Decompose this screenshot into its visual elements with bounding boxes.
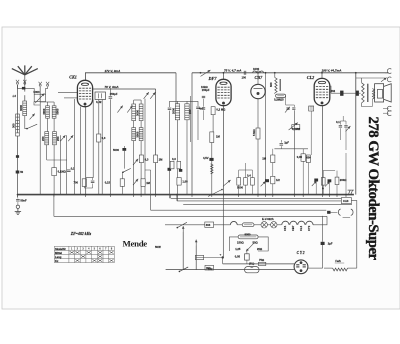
band switch S2 [27,124,37,128]
fuse box on plus line [195,255,203,259]
fuse box 303 lower [205,265,214,270]
coil L2 300 [16,114,20,136]
resistor R11 [271,176,275,184]
terminal E1 [39,82,42,86]
svg-text:CY2: CY2 [307,225,311,231]
svg-text:4,5V: 4,5V [203,156,209,160]
divider resistor 800 oval [238,235,258,239]
trimmer T5 [127,106,132,113]
svg-text:250pF: 250pF [110,92,118,96]
trimmer T2 [60,135,65,141]
switch arrow S6 [312,181,317,186]
wire hook1 stub [385,72,389,74]
wire x24.8 down to coil [24,95,26,101]
terminal hook top right 1 [387,69,391,74]
switch arrow S7 [325,181,330,186]
switch arrow S5 [223,180,231,186]
transformer secondary [372,89,374,100]
wire coil L5-L7 link [53,118,55,131]
wire R6 down [211,143,213,195]
ground symbol [15,209,21,215]
resistor R2 0,1M [52,168,57,176]
junction dot g17 [322,194,324,196]
junction stub g8 [191,195,193,197]
capacitor C21 blob [168,168,172,171]
wire R11 down [272,184,274,195]
terminal hook top right 2 [387,77,391,82]
coil L10 [132,128,136,141]
speaker frame [375,84,384,102]
svg-text:3000: 3000 [135,110,139,116]
junction stub g15 [293,195,295,197]
wire HT bus 172V [85,73,176,81]
wire coil to R8 [274,93,276,94]
wire x93.2 segment [86,100,94,178]
svg-text:278 GW Oktoden-Super: 278 GW Oktoden-Super [365,117,381,261]
svg-text:CB7: CB7 [291,225,295,231]
svg-text:CB7: CB7 [255,75,264,80]
resistor R22 1M [154,155,158,163]
capacitor 50nF on x17.5 [16,171,20,174]
svg-text:50: 50 [20,170,23,174]
junction dot g8 [191,194,193,196]
junction dot g20 [345,194,347,196]
wire box pins down [98,100,100,135]
svg-text:600: 600 [269,82,273,87]
wire x176.9 drop [176,195,178,201]
wire CA3 to right bus [351,201,356,269]
wire y93 caps link [331,92,340,94]
trimmer capacitor 5000 [34,94,45,101]
wire R17 R18 downs [322,185,324,195]
wire R5 R6 link [212,115,214,132]
wire y160 cross [47,159,67,161]
svg-text:3000: 3000 [42,108,46,114]
svg-text:700: 700 [74,180,79,184]
capacitor C13 blob [265,179,269,182]
wire C12 stub [280,146,282,149]
table X marks [70,251,114,262]
junction dot g5 [140,194,142,196]
mains arrow 2 [195,240,197,246]
junction stub g19 [336,195,338,197]
wire CY2 right [308,267,323,269]
coil L7 250 [53,132,57,145]
junction stub g11 [238,195,240,197]
wire R7 down [257,139,259,195]
svg-text:50nF: 50nF [20,198,27,202]
wire CB7 down [257,99,259,128]
wire IF2 down [169,111,171,199]
switch S10 [123,168,131,172]
svg-text:10kΩ: 10kΩ [201,85,208,89]
wire tone cluster [340,121,346,125]
junction stub g18 [328,195,330,197]
pickup jack left [338,209,340,215]
trimmer T3 [68,135,73,141]
wire row feeds [238,170,240,178]
svg-text:1/2: 1/2 [276,178,280,182]
junction dot g15 [294,194,296,196]
coil L11 [139,128,143,141]
alignment table [54,246,114,262]
junction stub g17 [322,195,324,197]
wire link y105 left [34,102,40,105]
junction stub g0 [17,195,19,197]
coil L1 3000 [23,101,27,116]
wire pot net [285,96,287,105]
wire transformer top [361,78,363,83]
return wire y215.9 [54,215,327,217]
svg-text:CL2: CL2 [307,75,314,80]
double diode CB7 [251,84,265,98]
junction dot g18 [329,194,331,196]
mains switch S9 [179,267,188,271]
mains lead 1 [182,232,184,270]
bracket y170.6 [323,170,336,172]
wire C9 C10 drop [203,99,205,107]
svg-text:0,3: 0,3 [145,157,149,161]
junction dot g1 [53,194,55,196]
wire HT bus right section [192,72,389,74]
coil L13 100 [185,104,189,120]
mains switch S8 [177,222,187,227]
wire screen bus 70V [92,88,155,90]
heater loop CB7 [290,221,297,225]
junction stub g2 [85,195,87,197]
table header digits [71,247,113,251]
junction stub g13 [265,195,267,197]
wire R12 [302,149,304,154]
svg-text:172 V, 3mA: 172 V, 3mA [105,69,121,73]
junction dot g4 [133,194,135,196]
resistor R9 0,1M [292,125,300,129]
resistor E-V-022A oval [242,223,254,227]
junction stub g6 [155,195,157,197]
resistor R23 1M lower [141,179,145,187]
resistor R6 1M vertical [210,132,214,143]
dial lamp 2 [271,222,277,228]
junction dot g13 [265,194,267,196]
junction stub g16 [302,195,304,197]
coil L8 300 [132,104,136,121]
trimmer T6 [144,92,149,99]
junction dot g7 [176,194,178,196]
crossover loop [230,221,237,224]
wire x54.1 lower [53,145,55,160]
svg-text:100: 100 [242,76,247,80]
svg-text:0,1: 0,1 [336,120,340,124]
junction dot g10 [223,194,225,196]
svg-text:1μF: 1μF [284,141,289,145]
capacitor C22 blob [179,169,182,172]
coil L5 5000 [52,106,56,118]
wire R20 down [121,186,123,194]
wire L6 to ground bus [46,145,48,160]
capacitor C5 [91,180,95,182]
svg-text:75 V, 4,7 mA: 75 V, 4,7 mA [224,69,241,73]
junction dot g3 [110,194,112,196]
box oscillator unit 0,32 [95,92,106,100]
heater loop CY2 [306,221,313,225]
resistor R3 700 [82,179,86,187]
wire ant terminals link [18,85,35,94]
svg-text:5 MΩ: 5 MΩ [252,129,256,136]
junction dot g11 [238,194,240,196]
wire coil L3-L6 link [47,118,49,131]
wire right bus x355.8 [355,73,357,195]
wire C5 link [84,184,92,188]
wire plus node down [222,258,224,264]
svg-text:Lang: Lang [55,255,62,259]
resistor R8 oval [276,94,286,97]
wire 250pF drop [109,89,111,96]
wire x265 vertical [265,73,267,195]
svg-text:5000: 5000 [237,186,243,190]
capacitor box below CL2 [309,106,314,111]
junction stub g4 [133,195,135,197]
wire y148.8 horizontal [274,148,308,150]
heater dropper resistor Fe/h [333,268,348,271]
wire CL2 anode up [321,73,323,79]
resistor R25 [177,161,181,169]
wire coils down to bus [133,141,135,195]
capacitor 250pF [109,96,113,98]
svg-text:0,05: 0,05 [235,254,241,258]
junction dot g14 [272,194,274,196]
wire R2 stubs [53,160,55,168]
svg-text:5000: 5000 [113,148,119,152]
octode CK1 [77,80,92,106]
switch S1 on HT bus [201,70,211,76]
wire R10 [272,149,274,155]
resistor R12 600 [301,154,305,162]
resistor R18 200 [335,177,339,185]
junction dot g9 [211,194,213,196]
svg-text:CK1: CK1 [283,225,287,231]
mains arrow 1 [182,226,184,232]
junction blob on x17.5 [16,155,19,158]
resistor R7 5M vertical [256,128,260,139]
svg-text:600: 600 [306,156,311,160]
svg-text:4nF: 4nF [199,107,204,111]
row resistor R13 [237,178,241,186]
svg-text:198 V, 44,7mA: 198 V, 44,7mA [322,69,342,73]
svg-text:462: 462 [331,89,336,93]
dial lamp 1 [261,222,267,228]
svg-text:100: 100 [188,109,192,114]
heater wire b [237,224,242,226]
mains lead 2 [195,246,197,270]
wire DF7 anode up [223,73,225,80]
switch S3 near bus [208,190,222,197]
svg-text:1000: 1000 [253,67,260,71]
terminal A1 [16,80,19,84]
resistor R5 0,2M [211,107,215,115]
wire antenna down [24,75,26,92]
chassis hatch right end [348,190,354,194]
junction stub g9 [211,195,213,197]
svg-text:250: 250 [41,136,45,141]
wire x311 down [310,111,312,155]
junction dot g19 [336,194,338,196]
capacitor C16 blob [328,179,332,182]
wire x17.5 vertical [17,85,19,133]
svg-text:0,2MΩ5: 0,2MΩ5 [274,98,284,102]
CA3 box [341,198,351,204]
svg-text:DF7: DF7 [208,76,218,81]
wire x102 vertical [101,100,103,195]
svg-text:50W: 50W [155,245,161,249]
wire CL2 cathode down [322,106,324,195]
rectifier CY2 [294,260,308,274]
output pentode CL2 [314,78,330,105]
wire CL2 anode to caps [330,86,331,93]
svg-text:5000: 5000 [55,108,59,114]
svg-text:1,25: 1,25 [235,247,241,251]
plus node dot [222,256,224,258]
wire x150.6 drop [150,195,152,211]
junction stub g1 [53,195,55,197]
heater wire c [254,224,261,226]
pickup jack right [351,209,353,215]
capacitor C7 [168,107,172,109]
wire coil top [274,73,276,78]
svg-text:2μF: 2μF [328,242,333,246]
trimmer T7 [150,92,155,99]
wire x80.7 vertical [80,107,82,195]
capacitor C11 blob [209,158,213,161]
wire IF-can right wall x155.6 [155,89,157,195]
coil L3 3000 [46,106,50,118]
svg-text:0,15: 0,15 [105,181,111,185]
wire bus drop x176 [175,73,177,104]
wire 2uF vertical [322,216,324,242]
coupling capacitor Ca [340,91,343,96]
barretter box 303 [205,222,214,227]
tone caps cluster [339,125,342,127]
svg-text:+: + [220,253,222,257]
return wire y204.6 [183,204,352,206]
svg-text:0,3: 0,3 [172,157,176,161]
earth terminal circle [16,205,19,208]
terminal hook bottom right 1 [387,106,391,111]
coil L9 3000 [139,104,143,121]
wire jack feed [331,211,338,213]
svg-text:0,05: 0,05 [297,155,303,159]
wire R17 C16 feeds [322,171,324,178]
wire row downs [238,185,240,195]
resistor R10 1M [271,155,275,163]
core bar [279,79,281,91]
capacitor C10 [202,107,205,109]
svg-text:CA3: CA3 [343,199,349,203]
svg-text:1,00: 1,00 [182,180,188,184]
switch arrow S4 [261,181,266,186]
svg-text:8050: 8050 [245,232,251,236]
junction dot g6 [155,194,157,196]
HT lower bus y263.9 [223,263,295,265]
pentode DF7 [216,79,231,105]
wire grid feed y92.6 [58,92,78,94]
resistor R26 [177,178,181,186]
wire x53.9 drop [53,195,55,217]
output transformer primary [362,83,365,103]
divider wiper [246,243,254,252]
svg-text:ZF=482 kHz: ZF=482 kHz [70,232,92,236]
junction stub g14 [272,195,274,197]
speaker magnet [377,90,382,99]
return wire y198.3 [171,197,342,199]
svg-text:303: 303 [206,266,211,270]
wire R16 down [307,163,309,195]
wire x345 down [345,153,347,195]
wire x145 vertical [144,99,146,195]
wire DF7 cathode down [223,106,225,195]
wire secondary leads [371,99,373,106]
coupling capacitor Cb [356,91,359,96]
svg-text:3000: 3000 [19,105,23,111]
wire CK1 cathode down [85,107,87,195]
heater wire a [214,224,231,226]
row resistor R14 [244,178,248,186]
resistor R16 [306,155,310,163]
junction stub g12 [257,195,259,197]
wire x66.7 vertical [66,135,68,194]
svg-text:Mittel: Mittel [55,251,62,255]
junction stub g20 [345,195,347,197]
return wire y200.9 [177,200,342,202]
wire x60.3 vertical [59,135,61,194]
coil L12 2000 [175,104,179,120]
svg-text:L4: L4 [13,94,17,98]
wire earth link [17,195,19,199]
wire x170.7 drop [170,195,172,199]
junction stub g3 [109,195,111,197]
trimmer T9 [133,159,138,165]
junction dot g0 [17,194,19,196]
junction stub g5 [140,195,142,197]
svg-text:Skala/Nr: Skala/Nr [55,247,66,251]
wire CB7 top [257,73,259,85]
capacitor on antenna lead [22,87,25,90]
wire vertical x192 to ground bus [191,73,193,195]
junction dot g16 [302,194,304,196]
IF2 can wall [189,96,191,142]
wave trap earpiece [211,164,213,174]
IF coil 1000 on bus [253,71,257,73]
capacitor C12 1uF [280,143,284,145]
svg-text:0,2 MΩ: 0,2 MΩ [216,108,226,112]
junction dot g12 [257,194,259,196]
coil L6 250 [45,132,49,145]
trimmer T8 [292,107,295,109]
terminal hook bottom right 2 [387,111,391,116]
resistor R21 0,3M [139,155,143,163]
antenna [12,65,38,74]
capacitor C18 [16,199,20,201]
ground bus [18,194,354,196]
divider box left [229,237,238,251]
terminal E2 [46,82,49,86]
svg-text:20Ω: 20Ω [257,247,263,251]
speaker cone [384,84,392,102]
svg-text:303: 303 [206,223,211,227]
svg-text:70 V, 0mA: 70 V, 0mA [105,85,119,89]
mains bus y269.6 [166,269,295,271]
resistor R24 [170,161,174,169]
smoothing capacitor 2uF [321,242,325,245]
